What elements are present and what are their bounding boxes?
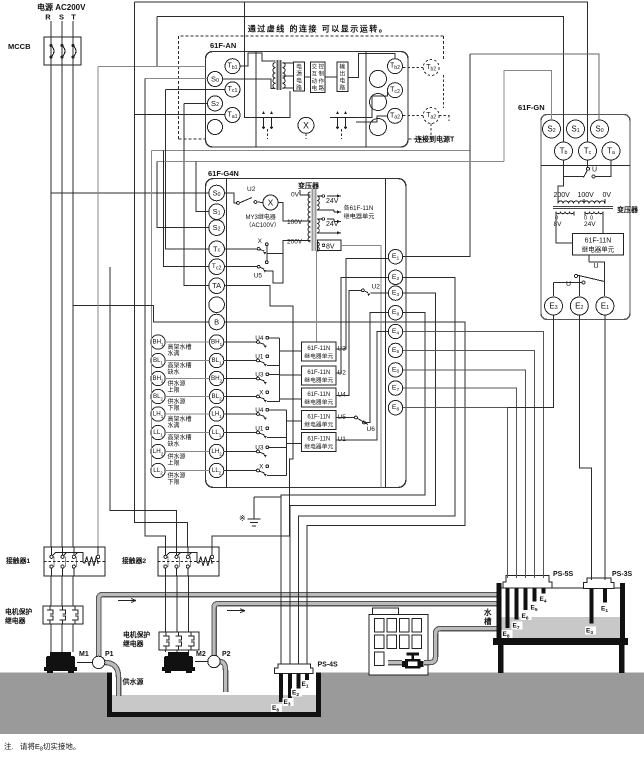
wire 100V tap	[584, 171, 588, 199]
wire S0 to U2 switch	[224, 193, 236, 203]
terminal S1 (61F-G4N)	[209, 204, 225, 220]
wire LH2 external-internal	[165, 451, 209, 453]
wire chain stub	[150, 378, 153, 380]
svg-text:继电器: 继电器	[123, 639, 144, 648]
terminal BL1 (61F-G4N)	[209, 353, 223, 367]
pipe pump2 to tank	[214, 604, 497, 657]
svg-text:供水源: 供水源	[168, 471, 186, 479]
terminal LL1 (61F-G4N)	[209, 425, 223, 439]
wire E2 to pit E2	[299, 277, 456, 664]
switch U2 (61F-G4N)	[237, 198, 257, 205]
label E5 electrode	[530, 604, 541, 613]
switch U5 (Tc2)	[254, 261, 269, 280]
electrode E8 (PS-5S)	[506, 588, 510, 628]
dashed wire Ta2d down	[430, 124, 432, 140]
wire BH1 external-internal	[165, 341, 209, 343]
wire 8V gray to units	[316, 251, 318, 342]
switch U2 (E3 row)	[362, 289, 371, 296]
wire rail to S0(61F-GN)	[470, 54, 599, 120]
svg-text:接触器1: 接触器1	[6, 556, 30, 565]
wire switch to E1	[604, 282, 606, 297]
svg-text:供水源: 供水源	[168, 379, 186, 387]
svg-text:R: R	[45, 13, 51, 22]
wire B to pit E1	[224, 322, 465, 664]
wire bus to box4	[287, 420, 302, 422]
wire Tc to X switch	[224, 248, 257, 250]
svg-text:U1: U1	[255, 426, 264, 433]
svg-text:PS-4S: PS-4S	[318, 662, 339, 669]
svg-text:U1: U1	[255, 354, 264, 361]
wire top to 61F-AN	[244, 2, 246, 51]
terminal Tc (61F-GN)	[579, 142, 597, 160]
wire Tb1 to primary	[240, 53, 276, 66]
svg-text:变压器: 变压器	[298, 181, 320, 190]
transformer secondary 24V	[584, 212, 603, 229]
svg-text:下限: 下限	[168, 478, 180, 486]
svg-text:水满: 水满	[168, 349, 180, 357]
wire gray rail to E1 net	[152, 150, 471, 152]
wire bus to box5	[287, 442, 302, 444]
svg-text:M1: M1	[79, 651, 89, 658]
label E3 electrode tank	[585, 627, 596, 636]
svg-text:电: 电	[296, 63, 302, 71]
switch U4 (row LH1)	[255, 407, 268, 420]
wire output to Tb2	[348, 54, 395, 78]
terminal Ta1 (61F-AN)	[225, 108, 240, 123]
svg-text:61F-11N: 61F-11N	[307, 437, 330, 443]
switch X (Tc)	[257, 238, 268, 255]
wire to S2-G4N	[157, 162, 209, 228]
wire R to S0-G4N	[51, 192, 209, 194]
svg-text:上限: 上限	[168, 386, 180, 394]
wire X to 100V tap	[278, 203, 287, 222]
wire bus to box1	[279, 350, 301, 352]
wire E3 to switch	[554, 282, 583, 284]
wire phase S	[61, 21, 63, 547]
svg-text:动: 动	[311, 78, 317, 85]
wire row8 out	[267, 475, 287, 477]
arrow flow 2	[227, 609, 245, 613]
svg-text:U5: U5	[254, 273, 263, 280]
svg-text:继电器单元: 继电器单元	[304, 420, 333, 428]
pipe pump1 suction	[104, 662, 119, 696]
wire E2-GN to PS-3S	[579, 315, 591, 580]
label E2 pit	[291, 689, 302, 698]
wire chain stub	[150, 360, 153, 362]
svg-text:缺水: 缺水	[168, 368, 180, 376]
wire LL1 external-internal	[165, 432, 209, 434]
dashed wire Ta2	[403, 115, 423, 117]
float terminal BH1 external	[151, 335, 165, 349]
switch U3 (row LH2)	[255, 445, 268, 458]
svg-text:电机保护: 电机保护	[5, 607, 32, 616]
label E3 pit	[283, 698, 294, 707]
switch U3 (row BH2)	[255, 372, 268, 385]
svg-text:上限: 上限	[168, 459, 180, 467]
contactor 2	[158, 547, 219, 576]
wire S0-AN row	[145, 78, 207, 80]
electrode E3 (PS-3S)	[589, 589, 593, 624]
svg-text:100V: 100V	[578, 192, 595, 199]
label E4 electrode	[539, 595, 550, 604]
wire box2-box3	[325, 76, 337, 78]
MCCB pole 2	[61, 44, 66, 59]
transformer primary (61F-GN)	[558, 199, 605, 204]
terminal B (61F-G4N)	[209, 314, 225, 330]
pipe pump1 to tank	[99, 595, 497, 658]
wire chain stub	[150, 470, 153, 472]
pipe pump2 suction	[220, 662, 226, 693]
wire chain stub	[150, 432, 153, 434]
box interlock circuit 交控互制动作电路	[311, 62, 326, 93]
svg-text:输: 输	[339, 63, 345, 71]
label E1 electrode tank	[600, 605, 611, 614]
wire chain stub	[150, 341, 153, 343]
transformer primary (61F-G4N)	[287, 190, 311, 242]
svg-text:61F-11N: 61F-11N	[307, 392, 330, 398]
terminal E2 (E2) (61F-G4N)	[388, 270, 402, 284]
wire BL1 external-internal	[165, 360, 209, 362]
svg-text:M2: M2	[196, 651, 206, 658]
probe holder PS-5S	[503, 576, 552, 589]
box 61F-11N relay unit 3 (61F-G4N)	[302, 388, 336, 407]
wire box1-box2	[305, 76, 311, 78]
electrode E5 (PS-5S)	[533, 588, 537, 602]
terminal NC (61F-G4N)	[209, 297, 225, 313]
dashed drop to Tb2	[442, 36, 444, 60]
wire BH2 to switch	[224, 378, 257, 380]
wire E8b to tank	[403, 408, 508, 578]
svg-text:U2: U2	[247, 186, 256, 193]
arrow flow 1	[118, 599, 136, 603]
wire E6 to tank	[403, 370, 526, 578]
wire MP2 to M2 188.5	[188, 648, 190, 652]
dashed box left+top	[179, 36, 444, 139]
svg-text:继电器单元: 继电器单元	[582, 245, 615, 254]
wire v244 into block	[245, 52, 257, 118]
svg-text:U6: U6	[367, 426, 376, 433]
wire E4 to tank	[403, 332, 544, 579]
wire Ta to switch	[595, 160, 611, 177]
box 61F-11N relay unit 1 (61F-G4N)	[302, 342, 336, 361]
terminal blank (61F-AN left)	[208, 120, 223, 135]
wire Tc2-G4N feed	[163, 151, 208, 267]
wire LL1 to switch	[224, 432, 257, 434]
contactor 1	[44, 547, 105, 576]
wire row7 out	[269, 446, 287, 448]
dashed link left contact	[267, 129, 269, 139]
wire LL2 to switch	[224, 470, 257, 472]
wire Tb to switch	[564, 160, 584, 177]
terminal Tc1 (61F-AN)	[225, 82, 240, 97]
transformer secondary 8V	[554, 212, 575, 229]
svg-text:高架水槽: 高架水槽	[168, 343, 192, 351]
wire 24V to unit	[602, 216, 604, 234]
svg-text:电: 电	[311, 84, 317, 92]
svg-text:P1: P1	[105, 651, 114, 658]
svg-text:PS-3S: PS-3S	[612, 571, 633, 578]
svg-text:（AC100V）: （AC100V）	[246, 222, 280, 229]
electrode E1 (PS-4S)	[305, 674, 309, 680]
wire gray rail S2-GN to S2-G4N	[157, 161, 504, 163]
wire contactor2 out 165.5	[165, 576, 167, 632]
wire BL2 external-internal	[165, 396, 209, 398]
box power circuit 电源电路	[294, 62, 305, 92]
svg-text:接触器2: 接触器2	[122, 556, 146, 565]
svg-text:61F-AN: 61F-AN	[210, 41, 236, 50]
terminal Ta2 (61F-AN)	[388, 108, 403, 123]
svg-text:电源 AC200V: 电源 AC200V	[37, 2, 86, 12]
wire LH1 external-internal	[165, 413, 209, 415]
building	[369, 608, 428, 675]
svg-text:高架水槽: 高架水槽	[168, 433, 192, 441]
svg-text:电: 电	[339, 77, 345, 85]
svg-text:200V: 200V	[287, 239, 303, 246]
terminal S0 (61F-AN)	[208, 72, 223, 87]
motor protection relay 1	[43, 606, 83, 624]
svg-text:连接到电源T: 连接到电源T	[415, 135, 455, 144]
wire BL1 to switch	[224, 360, 257, 362]
svg-text:路: 路	[318, 84, 324, 92]
float terminal LL1 external	[151, 425, 165, 439]
faucet valve	[402, 653, 424, 669]
terminal LH1 (61F-G4N)	[209, 407, 223, 421]
wire chain stub	[150, 413, 153, 415]
svg-text:供水源: 供水源	[168, 397, 186, 405]
wire Tc to switch	[587, 160, 589, 167]
wire secondary tap2	[283, 75, 294, 77]
terminal E1 (E1) (61F-G4N)	[388, 250, 402, 264]
wire X-U5 contacts link	[266, 246, 268, 261]
61F-AN block	[206, 52, 409, 148]
wire LH2 to switch	[224, 451, 257, 453]
svg-text:下限: 下限	[168, 404, 180, 412]
float terminal LL2 external	[151, 463, 165, 477]
wire E3 to pit E3	[290, 293, 436, 664]
motor M2	[162, 652, 195, 673]
svg-text:控: 控	[318, 63, 324, 71]
wire Ta1 net down to contactor2	[134, 2, 187, 547]
contact pair right (61F-AN)	[330, 111, 356, 129]
motor M1	[44, 652, 77, 673]
wire to contactor2 pole2	[110, 267, 177, 547]
wire Ta1 drop	[134, 2, 136, 115]
svg-text:电: 电	[296, 77, 302, 85]
61F-GN block	[541, 115, 630, 320]
label E8 pit	[271, 704, 282, 713]
terminal S2 (61F-GN)	[543, 120, 561, 138]
MCCB pole 3	[72, 44, 77, 59]
terminal E8 (E8) (61F-G4N)	[388, 306, 402, 320]
wire 8V to unit	[556, 216, 573, 244]
label E1 pit	[301, 680, 312, 689]
float terminal LH2 external	[151, 444, 165, 458]
wire E5 to tank	[403, 350, 535, 578]
svg-text:MCCB: MCCB	[8, 42, 31, 51]
wire 200V tap	[558, 177, 564, 200]
box 61F-11N relay unit 5 (61F-G4N)	[302, 433, 336, 452]
wire left contact up	[282, 91, 290, 118]
relay X MY3 (61F-G4N)	[263, 195, 278, 210]
svg-text:100V: 100V	[287, 219, 303, 226]
wire row3 out	[269, 373, 280, 375]
box 61F-11N relay unit 2 (61F-G4N)	[302, 366, 336, 385]
wire MP1 to M1 62	[61, 624, 63, 652]
wire row4 out	[267, 401, 280, 403]
wire right contact to Ta2	[356, 116, 388, 122]
terminal BL2 (61F-G4N)	[209, 389, 223, 403]
svg-text:61F-11N: 61F-11N	[307, 370, 330, 376]
svg-text:继电器单元: 继电器单元	[344, 213, 375, 221]
terminal S2 (61F-G4N)	[209, 220, 225, 236]
terminal blank3 (61F-AN right)	[370, 119, 387, 136]
svg-text:变压器: 变压器	[617, 205, 639, 214]
float terminal BL1 external	[151, 353, 165, 367]
electrode E4 (PS-5S)	[542, 588, 546, 594]
wire TA down to contactor2 coil	[212, 286, 293, 547]
svg-text:水满: 水满	[168, 421, 180, 429]
pipe faucet stub	[388, 660, 402, 666]
switch X (row LL2)	[257, 464, 269, 477]
terminal E1 (61F-GN)	[596, 297, 614, 315]
svg-text:U: U	[594, 263, 599, 270]
switch U1 (row BL1)	[255, 354, 268, 367]
terminal Tb (61F-GN)	[555, 142, 573, 160]
float terminal BH2 external	[151, 371, 165, 385]
wire S2-AN row	[184, 102, 207, 104]
svg-text:61F-G4N: 61F-G4N	[208, 169, 239, 178]
svg-text:U4: U4	[255, 407, 264, 414]
dashed wire Tb2d-Ta2d	[442, 75, 444, 108]
dashed link right contact	[341, 129, 343, 139]
box 61F-11N relay unit (61F-GN)	[573, 234, 624, 256]
wire rail Ta1 to Tc(61F-GN)	[135, 2, 588, 142]
svg-text:8V: 8V	[326, 243, 335, 250]
dashed terminal Ta2 (remote)	[423, 108, 439, 124]
svg-text:U: U	[592, 167, 597, 174]
dashed wire Tb2	[403, 67, 423, 69]
wire 8V gray down	[341, 246, 381, 488]
wire E2 up	[578, 276, 580, 296]
ground terrain	[0, 673, 644, 735]
svg-text:高架水槽: 高架水槽	[168, 361, 192, 369]
svg-text:制: 制	[318, 70, 324, 78]
svg-text:X: X	[259, 390, 264, 397]
pump P2	[195, 655, 220, 667]
svg-text:0V: 0V	[603, 192, 612, 199]
wire Tb1 drop	[156, 16, 158, 66]
terminal BH2 (61F-G4N)	[209, 371, 223, 385]
svg-text:高架水槽: 高架水槽	[168, 415, 192, 423]
61F-G4N terminal divider	[226, 179, 228, 488]
svg-text:X: X	[259, 464, 264, 471]
svg-text:路: 路	[296, 84, 302, 92]
wire E7 to tank	[403, 388, 517, 578]
terminal E7 (E7) (61F-G4N)	[388, 381, 402, 395]
probe holder PS-3S	[584, 578, 615, 589]
wire bus to box2	[279, 374, 301, 376]
terminal Tc2 (61F-G4N)	[209, 259, 225, 275]
terminal BH1 (61F-G4N)	[209, 335, 223, 349]
wire E3-GN join E8	[508, 315, 554, 408]
terminal blank2 (61F-AN right)	[370, 94, 387, 111]
transformer secondary 24V-1 (G4N)	[317, 194, 341, 213]
transformer core (61F-G4N)	[312, 189, 317, 251]
svg-text:注. 请将E8切实接地。: 注. 请将E8切实接地。	[4, 741, 80, 753]
motor protection relay 2	[159, 632, 199, 650]
wire U2 to X	[257, 201, 263, 204]
svg-text:24V: 24V	[326, 198, 339, 205]
switch U4 (row BH1)	[255, 335, 268, 348]
terminal E2 (61F-GN)	[570, 297, 588, 315]
elevated water tank	[493, 583, 628, 673]
pump P1	[77, 656, 105, 668]
wire MP2 to M2 177	[176, 648, 178, 652]
terminal TA (61F-G4N)	[209, 278, 225, 294]
transformer secondary 8V (G4N)	[317, 240, 341, 251]
wire secondary tap1	[283, 62, 294, 64]
svg-text:S: S	[59, 13, 64, 22]
terminal S1 (61F-GN)	[567, 120, 585, 138]
wire unit to switch	[589, 262, 605, 282]
wire E8 to pit E8	[281, 313, 425, 664]
wire BL2 to switch	[224, 396, 257, 398]
svg-text:X: X	[258, 238, 263, 245]
wire Tc switches to 200V tap	[267, 241, 287, 254]
svg-text:互: 互	[311, 71, 317, 78]
svg-text:缺水: 缺水	[168, 440, 180, 448]
svg-text:各61F-11N: 各61F-11N	[344, 204, 374, 212]
svg-text:PS-5S: PS-5S	[553, 571, 574, 578]
wire unit1 to E1	[336, 259, 388, 349]
61F-AN left divider	[255, 52, 257, 148]
svg-text:MY3继电器: MY3继电器	[246, 213, 276, 221]
switch U lower (61F-GN)	[566, 275, 605, 289]
box output circuit 输出电路	[337, 62, 348, 92]
wire rail Tb1 to Tb(61F-GN)	[157, 16, 564, 142]
svg-text:T: T	[71, 13, 76, 22]
wire S0 to primary	[223, 79, 276, 89]
svg-text:继电器单元: 继电器单元	[304, 443, 333, 451]
wire LH1 to switch	[224, 413, 257, 415]
svg-text:电机保护: 电机保护	[123, 630, 150, 639]
switch U6	[355, 416, 368, 424]
svg-text:供水源: 供水源	[168, 452, 186, 460]
label E8 electrode	[502, 630, 513, 639]
wire S1-G4N feed	[196, 162, 209, 212]
terminal LH2 (61F-G4N)	[209, 444, 223, 458]
svg-text:路: 路	[339, 84, 345, 92]
terminal E3 (E3) (61F-G4N)	[388, 286, 402, 300]
svg-text:作: 作	[318, 77, 324, 85]
svg-text:源: 源	[296, 70, 302, 78]
wire U2b to E3	[371, 292, 389, 294]
wire right contact to Tc2	[356, 90, 388, 117]
wire BH2 external-internal	[165, 378, 209, 380]
wire chain stub	[150, 396, 153, 398]
wire secondary tap3	[283, 87, 294, 89]
electrode E8 (PS-4S)	[279, 674, 283, 702]
wire unit down	[588, 255, 590, 262]
wire U6 to E8	[365, 313, 388, 423]
water source pit	[107, 670, 321, 717]
transformer (61F-AN)	[273, 60, 285, 90]
svg-text:继电器单元: 继电器单元	[304, 352, 333, 360]
terminal S2 (61F-AN)	[208, 96, 223, 111]
dashed box bottom	[179, 138, 425, 140]
switch U (61F-GN)	[584, 167, 598, 179]
label E7 electrode	[512, 622, 523, 631]
